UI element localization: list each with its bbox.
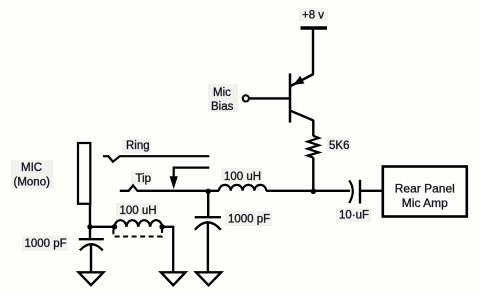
tip contact wire (120, 173, 219, 191)
svg-text:1000 pF: 1000 pF (25, 238, 67, 250)
ground G3 (196, 272, 221, 285)
svg-text:Mic Amp: Mic Amp (402, 196, 448, 210)
svg-text:Rear Panel: Rear Panel (395, 181, 455, 195)
junction node jack/L2 (87, 224, 92, 229)
svg-text:Ring: Ring (126, 140, 150, 152)
svg-text:100 uH: 100 uH (224, 171, 261, 183)
ground G2 (161, 272, 186, 285)
wire +8V to Q1 emitter (312, 30, 314, 75)
wire C2 to G3 (207, 222, 209, 272)
svg-text:Bias: Bias (211, 101, 234, 113)
transistor Q1 (290, 74, 314, 123)
wire node to L2 (90, 226, 115, 228)
wire Q1 base (249, 97, 290, 99)
box Rear Panel Mic Amp (383, 167, 467, 217)
ring contact wire (103, 140, 209, 162)
capacitor C3 10 uF (339, 180, 369, 222)
svg-text:+8 v: +8 v (302, 10, 324, 22)
capacitor C1 1000 pF (25, 238, 104, 250)
tap stub wire with arrow (170, 168, 210, 190)
wire node to C2 (207, 191, 209, 216)
Mic Bias terminal (211, 87, 249, 113)
svg-text:(Mono): (Mono) (14, 176, 51, 188)
svg-text:5K6: 5K6 (329, 140, 349, 152)
capacitor C2 1000 pF (195, 214, 271, 230)
svg-text:10·uF: 10·uF (339, 210, 369, 222)
resistor R1 5K6 (308, 136, 350, 158)
ground G1 (79, 272, 104, 285)
inductor L2 100 uH (112, 205, 165, 237)
wire jack to C1 node (89, 204, 91, 240)
svg-text:1000 pF: 1000 pF (228, 214, 270, 226)
wire C1 to G1 (90, 244, 92, 273)
svg-text:100 uH: 100 uH (120, 205, 157, 217)
+8V power rail (301, 10, 328, 29)
svg-text:Tip: Tip (136, 173, 152, 185)
inductor L1 100 uH (219, 171, 266, 191)
svg-text:Mic: Mic (213, 87, 231, 99)
jack J1 MIC mono (14, 143, 91, 204)
junction node tip/C2 (206, 189, 211, 194)
main output wire (266, 190, 350, 192)
svg-text:MIC: MIC (21, 162, 42, 174)
wire L2 to G2 (162, 227, 173, 273)
wire Q1 collector to R1 (312, 120, 314, 136)
wire C3 to amp box (360, 190, 383, 192)
junction node output (311, 189, 316, 194)
wire R1 to output node (312, 157, 314, 192)
